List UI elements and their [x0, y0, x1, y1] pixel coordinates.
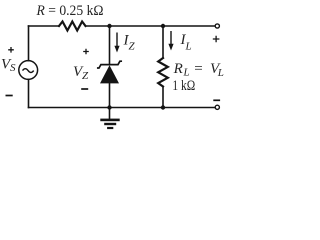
svg-text:R = 0.25 kΩ: R = 0.25 kΩ — [36, 3, 104, 19]
svg-text:R: R — [173, 61, 183, 77]
svg-text:Z: Z — [82, 70, 89, 82]
svg-text:L: L — [185, 41, 192, 53]
svg-text:=: = — [194, 61, 202, 77]
svg-text:1 kΩ: 1 kΩ — [172, 78, 195, 94]
svg-text:L: L — [217, 67, 224, 79]
svg-text:Z: Z — [129, 41, 136, 53]
svg-text:L: L — [183, 67, 190, 79]
svg-text:S: S — [10, 62, 16, 74]
